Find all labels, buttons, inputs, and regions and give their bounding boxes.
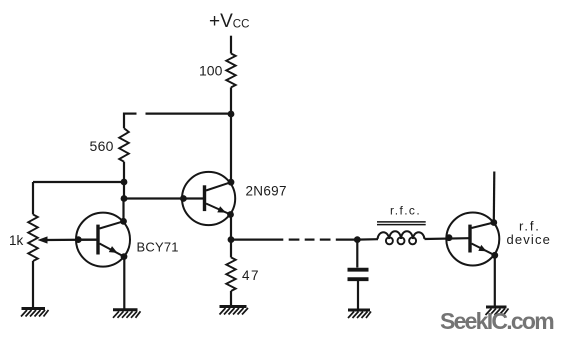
wire 560 bottom down	[123, 162, 125, 199]
ground BCY71 emitter	[113, 310, 141, 318]
node 2N697 emitter dot	[227, 211, 234, 218]
svg-text:r.f.c.: r.f.c.	[390, 204, 421, 218]
svg-text:SeekIC.com: SeekIC.com	[440, 308, 554, 334]
wire rf collector up	[493, 172, 496, 223]
wire lead to 47	[230, 240, 232, 258]
transistor Q2 2N697	[182, 172, 287, 225]
transistor Q1 BCY71	[76, 213, 179, 267]
svg-text:47: 47	[242, 268, 260, 283]
node rf emitter dot	[491, 252, 498, 259]
wire Vcc lead	[230, 36, 232, 54]
svg-text:1k: 1k	[9, 233, 24, 248]
ground rf device	[486, 307, 509, 315]
node rf base dot	[446, 234, 453, 241]
node junction J1	[228, 111, 235, 118]
node BCY71 collector dot	[120, 218, 127, 225]
resistor R 100	[199, 54, 236, 88]
node BCY71 emitter dot	[121, 253, 128, 260]
transistor Q3 r.f. device	[446, 213, 551, 266]
wire solid into cap junction	[336, 239, 358, 241]
wire 2N697 emitter down	[230, 215, 232, 240]
wire horizontal Vcc rail to 560 (with scan gap)	[124, 113, 231, 129]
ground capacitor	[348, 310, 371, 318]
wire pot wiper arrow	[38, 236, 97, 243]
wire base rail to 2N697	[124, 197, 203, 199]
svg-text:2N697: 2N697	[246, 184, 287, 199]
wire pot top lead	[32, 182, 34, 214]
potentiometer R 1k	[9, 214, 38, 261]
node BCY71 base dot	[75, 236, 82, 243]
wire junction to rfc	[357, 238, 378, 241]
ground pot	[21, 309, 49, 317]
wire 2N697 collector riser	[230, 114, 232, 182]
wire pot bottom to ground	[32, 261, 34, 309]
wire horizontal to pot top	[33, 181, 124, 183]
node rf collector dot	[490, 219, 497, 226]
wire BCY71 collector riser	[122, 199, 124, 222]
wire BCY71 emitter to ground	[123, 257, 125, 310]
wire output solid segment	[231, 239, 283, 241]
inductor L rfc	[377, 204, 426, 245]
node +Vcc label	[209, 11, 249, 32]
node junction J10	[228, 236, 235, 243]
wire 100 bottom to junction	[230, 87, 232, 114]
node junction J2	[121, 179, 128, 186]
node 2N697 base dot	[180, 195, 187, 202]
capacitor C1	[348, 240, 369, 310]
wire 47 to ground	[230, 291, 232, 307]
svg-text:560: 560	[90, 138, 114, 154]
node junction J11	[354, 236, 361, 243]
node 2N697 collector dot	[228, 179, 235, 186]
wire rf emitter to ground	[494, 255, 496, 307]
svg-text:100: 100	[199, 63, 223, 79]
svg-text:device: device	[507, 232, 551, 247]
wire dashed link	[289, 239, 331, 241]
node junction J3	[121, 195, 128, 202]
wire rfc to rf device base	[425, 237, 469, 240]
resistor R 47	[226, 257, 260, 291]
svg-text:BCY71: BCY71	[137, 239, 179, 254]
ground 47	[220, 307, 249, 315]
resistor R 560	[90, 128, 129, 162]
